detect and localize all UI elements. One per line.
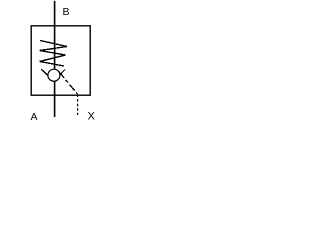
spring (40, 41, 68, 67)
valve body box (31, 26, 90, 95)
svg-text:B: B (63, 6, 70, 18)
ball seat V (41, 69, 65, 81)
svg-text:A: A (31, 111, 38, 123)
wire: port B vertical line through valve to port A (54, 1, 56, 117)
svg-text:X: X (88, 111, 96, 123)
pilot line dashed vertical to X (77, 94, 79, 115)
pilot line dashed diagonal (59, 72, 78, 94)
ball (circle) (48, 69, 60, 81)
